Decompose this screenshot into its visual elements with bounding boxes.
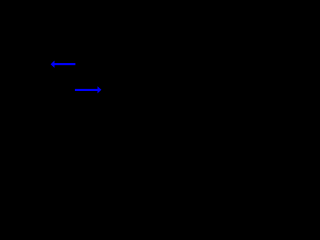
wire <box>75 89 98 91</box>
arrowhead <box>98 86 102 93</box>
wire <box>54 63 76 65</box>
arrow right (lower vector, pointing right) <box>75 86 102 93</box>
arrowhead <box>51 61 55 68</box>
arrow left (upper vector, pointing left) <box>51 61 76 68</box>
